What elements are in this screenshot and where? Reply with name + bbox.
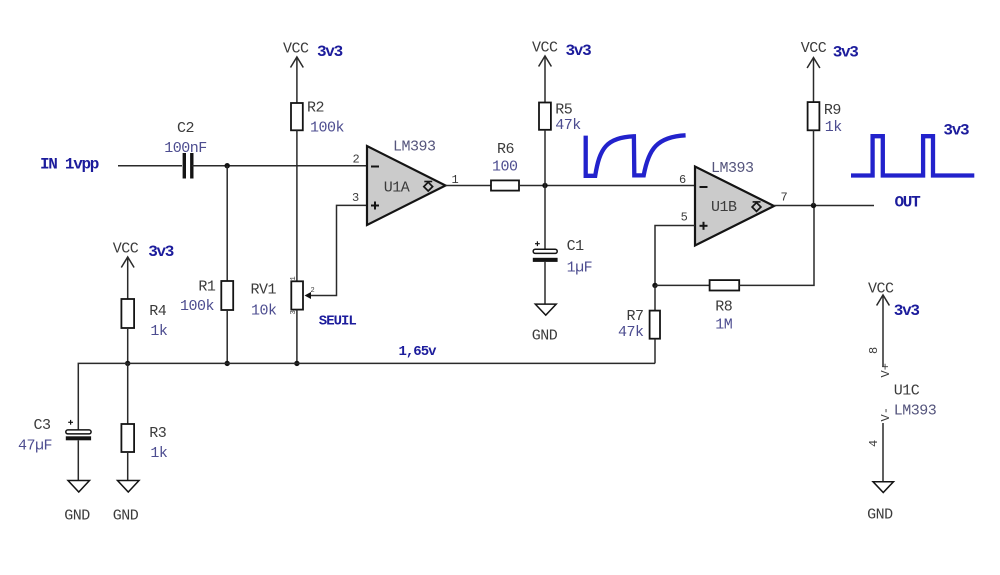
ground under C1 <box>535 304 556 315</box>
junction RV1 on rail <box>294 361 299 366</box>
ground U1C <box>873 482 894 493</box>
svg-text:R9: R9 <box>824 102 841 119</box>
ground under C3 <box>68 481 90 493</box>
wire junction down to R1 <box>226 166 228 281</box>
power VCC arrow U1C <box>877 295 890 367</box>
svg-text:R4: R4 <box>149 303 167 320</box>
svg-text:8: 8 <box>867 347 881 354</box>
svg-text:R1: R1 <box>198 279 216 296</box>
svg-text:47k: 47k <box>618 324 644 341</box>
svg-text:1k: 1k <box>150 445 168 462</box>
svg-text:6: 6 <box>679 173 686 187</box>
svg-text:RV1: RV1 <box>251 282 277 299</box>
svg-text:LM393: LM393 <box>711 160 754 177</box>
wire R4 to rail <box>127 328 129 363</box>
svg-text:U1B: U1B <box>711 199 737 216</box>
svg-text:3v3: 3v3 <box>148 243 174 261</box>
junction R4 on rail <box>125 361 130 366</box>
wire node to R7 <box>654 285 656 310</box>
wire C3 to GND <box>77 440 79 480</box>
resistor R1 <box>221 281 233 310</box>
svg-text:1: 1 <box>290 276 298 280</box>
wire C1 to GND <box>544 262 546 304</box>
svg-text:3v3: 3v3 <box>833 44 859 62</box>
resistor R5 <box>539 103 551 130</box>
svg-text:GND: GND <box>532 328 558 345</box>
wire R3 to GND <box>127 452 129 481</box>
svg-text:U1A: U1A <box>384 180 410 197</box>
svg-text:3v3: 3v3 <box>894 302 920 320</box>
svg-text:OUT: OUT <box>895 194 922 212</box>
svg-text:VCC: VCC <box>868 281 894 298</box>
svg-text:5: 5 <box>681 211 688 225</box>
power VCC arrow above R9 <box>807 58 820 103</box>
svg-text:R8: R8 <box>715 299 733 316</box>
waveform square <box>851 136 974 175</box>
resistor R3 <box>121 424 134 452</box>
power VCC arrow above R5 <box>539 56 552 103</box>
svg-text:1µF: 1µF <box>567 260 593 277</box>
svg-text:4: 4 <box>867 440 881 447</box>
svg-text:U1C: U1C <box>894 383 920 400</box>
svg-text:V+: V+ <box>879 363 893 377</box>
wire R5 to C1 <box>544 130 546 249</box>
svg-text:C3: C3 <box>34 417 52 434</box>
svg-text:100nF: 100nF <box>164 140 207 157</box>
svg-text:R5: R5 <box>555 102 573 119</box>
svg-text:100k: 100k <box>180 298 215 315</box>
svg-text:IN 1vpp: IN 1vpp <box>40 156 99 174</box>
svg-text:3v3: 3v3 <box>943 122 969 140</box>
svg-text:GND: GND <box>64 508 90 525</box>
resistor R4 <box>121 299 134 328</box>
svg-text:1k: 1k <box>825 119 843 136</box>
svg-text:R3: R3 <box>149 425 167 442</box>
svg-text:1,65v: 1,65v <box>399 344 438 360</box>
svg-text:7: 7 <box>781 191 788 205</box>
wire R2 to RV1 <box>296 130 298 281</box>
svg-text:VCC: VCC <box>283 41 309 58</box>
resistor R6 <box>491 180 519 190</box>
svg-text:V-: V- <box>879 407 893 421</box>
svg-text:SEUIL: SEUIL <box>319 314 357 330</box>
svg-text:10k: 10k <box>251 302 277 319</box>
power VCC arrow above R2 <box>291 57 304 103</box>
svg-text:100k: 100k <box>310 120 345 137</box>
svg-text:R2: R2 <box>307 100 324 117</box>
svg-text:47µF: 47µF <box>18 438 52 455</box>
wire RV1 bottom to rail <box>296 310 298 364</box>
wire rail 1.65v <box>78 363 655 430</box>
junction at input node <box>225 163 230 168</box>
wire U1B out <box>774 205 874 207</box>
potentiometer RV1 <box>291 281 311 309</box>
resistor R7 <box>650 311 660 339</box>
wire R7 to rail <box>654 339 656 364</box>
svg-text:2: 2 <box>353 153 360 167</box>
svg-text:VCC: VCC <box>801 40 827 57</box>
wire U1A out to R6 <box>446 185 492 187</box>
svg-text:C2: C2 <box>177 120 194 137</box>
junction R5 C1 node <box>542 183 547 188</box>
op-amp U1A <box>367 146 446 225</box>
capacitor C2 <box>184 153 192 179</box>
junction output node <box>811 203 816 208</box>
svg-text:3v3: 3v3 <box>566 42 592 60</box>
wire U1B pin5 <box>655 226 695 286</box>
svg-text:LM393: LM393 <box>393 139 436 156</box>
svg-text:GND: GND <box>867 507 893 524</box>
wire RV1 wiper to U1A pin3 <box>311 205 367 295</box>
resistor R8 <box>710 280 740 290</box>
svg-text:C1: C1 <box>567 238 585 255</box>
wire R9 to output <box>813 130 815 205</box>
waveform sawtooth <box>586 135 686 176</box>
op-amp U1B <box>695 167 774 246</box>
svg-text:1k: 1k <box>150 323 168 340</box>
wire R8 to output <box>739 206 814 286</box>
svg-text:VCC: VCC <box>532 40 558 57</box>
junction R1 on rail <box>225 361 230 366</box>
svg-text:GND: GND <box>113 508 139 525</box>
resistor R9 <box>808 102 820 130</box>
svg-text:R7: R7 <box>627 308 644 325</box>
svg-text:LM393: LM393 <box>894 403 937 420</box>
wire IN to C2 <box>118 165 182 167</box>
power VCC arrow left <box>121 257 134 299</box>
svg-text:R6: R6 <box>497 141 515 158</box>
wire C2 to U1A pin2 <box>192 165 367 167</box>
wire rail to R3 <box>127 363 129 424</box>
wire R1 to rail <box>226 310 228 363</box>
wire U1C V- to GND <box>882 423 884 482</box>
svg-text:3v3: 3v3 <box>317 43 343 61</box>
resistor R2 <box>291 103 303 130</box>
junction feedback node <box>652 283 657 288</box>
capacitor C1 <box>533 241 558 262</box>
wire R6 to U1B pin6 <box>519 185 695 187</box>
svg-text:VCC: VCC <box>113 241 139 258</box>
ground under R3 <box>118 481 140 493</box>
wire node to R8 <box>655 284 710 286</box>
svg-text:47k: 47k <box>555 117 581 134</box>
svg-text:1M: 1M <box>715 317 733 334</box>
capacitor C3 <box>66 420 91 440</box>
svg-text:100: 100 <box>492 159 518 176</box>
svg-text:2: 2 <box>311 287 315 295</box>
svg-text:3: 3 <box>352 191 359 205</box>
